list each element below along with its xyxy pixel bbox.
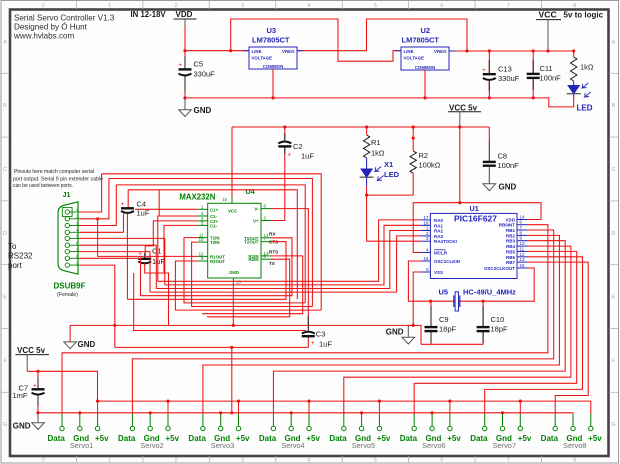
ground symbol under C5 <box>179 98 212 117</box>
svg-text:R2IN: R2IN <box>248 257 258 262</box>
wire loop L3 (DSUB p3 net) <box>116 185 305 303</box>
wire nest line 4 (p7 to RA3) <box>150 236 420 292</box>
svg-text:C13: C13 <box>498 65 512 74</box>
wire VDD input drop <box>184 26 186 51</box>
wire VCC to VDD pin <box>460 203 541 220</box>
wire VCC to U4 supply pin <box>231 127 233 197</box>
svg-text:RA0: RA0 <box>434 218 443 223</box>
svg-text:VOLTAGE: VOLTAGE <box>404 55 425 60</box>
svg-text:VCC: VCC <box>539 10 557 20</box>
note text: pinouts description <box>13 169 103 189</box>
svg-text:0: 0 <box>42 458 45 464</box>
svg-text:A: A <box>612 39 616 45</box>
resistor R2 100k <box>410 151 441 173</box>
svg-text:1uF: 1uF <box>152 257 165 266</box>
wire nest line 11 (R2IN) <box>207 259 290 317</box>
U1 right pins <box>517 220 527 269</box>
svg-text:T2OUT: T2OUT <box>244 240 259 245</box>
wire C1 bottom jog <box>145 264 169 326</box>
wire DSUB p5 into nest <box>80 238 165 285</box>
svg-text:U2: U2 <box>421 26 431 35</box>
capacitor C9 18pF <box>425 306 457 343</box>
svg-text:J1: J1 <box>63 190 71 199</box>
svg-text:IN 12-18V: IN 12-18V <box>131 10 167 19</box>
svg-text:C: C <box>3 167 7 173</box>
junction <box>183 49 186 52</box>
svg-text:+: + <box>33 383 37 390</box>
wire VCC feed line <box>27 371 97 401</box>
servo connector Servo5 <box>329 400 391 450</box>
svg-text:Servo7: Servo7 <box>493 441 516 450</box>
svg-text:A: A <box>3 39 7 45</box>
junction <box>412 137 415 140</box>
svg-text:1uF: 1uF <box>137 208 150 217</box>
svg-text:C2: C2 <box>293 142 303 151</box>
servo connector Servo4 <box>259 400 321 450</box>
wire C9 bottom lead <box>430 331 432 344</box>
net labels RX CTS RTS TX <box>269 231 278 265</box>
servo connector Servo3 <box>188 400 250 450</box>
wire +5v rail <box>98 401 591 414</box>
svg-text:0: 0 <box>42 3 45 9</box>
svg-text:7: 7 <box>507 458 510 464</box>
voltage regulator U3 LM7805CT <box>243 26 303 74</box>
wire L4 drop to C1- row <box>158 190 160 216</box>
wire C4 top riser <box>127 190 129 208</box>
wire loop L2 (DSUB p2 net) <box>109 179 313 307</box>
svg-text:+: + <box>178 62 182 69</box>
svg-text:VSS: VSS <box>434 270 443 275</box>
svg-text:T2IN: T2IN <box>210 240 220 245</box>
svg-text:B: B <box>612 103 616 109</box>
svg-text:10: 10 <box>199 237 204 242</box>
capacitor C8 100nF <box>483 140 519 184</box>
junction <box>412 324 415 327</box>
junction <box>113 324 116 327</box>
svg-text:D: D <box>612 231 616 237</box>
wire VSS to ground <box>413 272 420 325</box>
svg-text:13: 13 <box>520 257 526 262</box>
svg-text:OSC1CLKIN: OSC1CLKIN <box>434 259 460 264</box>
capacitor C1 1uF <box>138 247 165 266</box>
junction <box>532 49 535 52</box>
svg-text:OSC2CLKOUT: OSC2CLKOUT <box>484 266 515 271</box>
junction <box>458 201 461 204</box>
svg-text:D: D <box>3 231 7 237</box>
capacitor C10 18pF <box>477 306 508 343</box>
svg-text:Data: Data <box>48 434 66 443</box>
svg-text:4: 4 <box>307 458 310 464</box>
svg-text:GND: GND <box>229 270 239 275</box>
wire C2 top lead <box>284 127 286 140</box>
wire R1 to LED X1 <box>366 158 368 169</box>
svg-text:C10: C10 <box>491 315 505 324</box>
svg-text:E: E <box>612 295 616 301</box>
svg-text:7: 7 <box>76 248 78 252</box>
wire VCC drop to U1 <box>459 127 461 203</box>
wire C11 top lead <box>532 51 534 74</box>
svg-text:C11: C11 <box>540 64 553 73</box>
U4 right pins <box>261 209 271 260</box>
svg-text:16: 16 <box>222 197 227 202</box>
wire loop L1 (DSUB p1 net) <box>102 174 322 310</box>
wire C7 bottom lead <box>37 395 39 413</box>
wire DSUB p7 into nest <box>80 252 150 293</box>
svg-text:12: 12 <box>520 252 526 257</box>
svg-text:C1+: C1+ <box>210 207 219 212</box>
wire ground bus <box>70 325 421 344</box>
capacitor C13 330uF <box>482 60 520 91</box>
wire nest line 3 (p6 to RA2) <box>156 231 420 289</box>
svg-text:10: 10 <box>520 241 526 246</box>
wire DSUB p6 into nest <box>80 245 156 288</box>
wire nest line 12 (aux ground) <box>134 273 306 331</box>
svg-text:15: 15 <box>236 280 241 285</box>
svg-text:Data: Data <box>188 434 206 443</box>
svg-text:PIC16F627: PIC16F627 <box>454 214 497 224</box>
junction <box>465 49 468 52</box>
junction <box>230 346 233 349</box>
svg-text:+5v: +5v <box>377 434 391 443</box>
svg-text:RA4TOCKI: RA4TOCKI <box>434 239 457 244</box>
wire C10 top lead <box>482 301 484 326</box>
wire U2 output rail <box>449 50 574 52</box>
svg-text:100kΩ: 100kΩ <box>419 161 441 170</box>
junction <box>429 300 432 303</box>
servo connector Servo7 <box>470 400 532 450</box>
svg-text:1kΩ: 1kΩ <box>580 63 594 72</box>
svg-text:3: 3 <box>241 3 244 9</box>
svg-text:2: 2 <box>175 458 178 464</box>
wire C8 drop <box>488 127 490 140</box>
svg-text:R2: R2 <box>419 151 429 160</box>
svg-text:RA3: RA3 <box>434 234 443 239</box>
wire DSUB p8 into nest <box>80 258 141 295</box>
svg-text:Servo1: Servo1 <box>70 441 93 450</box>
svg-text:11: 11 <box>520 246 525 251</box>
wire U2 common to ground rail <box>424 70 426 98</box>
svg-text:+: + <box>287 152 291 159</box>
svg-text:LED: LED <box>577 104 593 113</box>
wire crystal ground rail <box>421 343 483 345</box>
svg-text:C8: C8 <box>498 152 508 161</box>
svg-text:18pF: 18pF <box>439 325 457 334</box>
svg-text:COMMON: COMMON <box>263 64 284 69</box>
net label VCC 5v (middle) <box>448 103 481 127</box>
svg-text:VOLTAGE: VOLTAGE <box>252 55 273 60</box>
wire C4 top to C1+ pin <box>135 208 198 210</box>
wire RB4 to Servo5 data <box>344 246 571 414</box>
wire U3 common to ground rail <box>272 69 274 98</box>
servo connector Servo2 <box>118 400 180 450</box>
wire X1 to node <box>366 186 368 195</box>
ground symbol under U1 VSS <box>386 325 415 344</box>
label To RS232 port <box>8 242 33 270</box>
svg-text:330uF: 330uF <box>194 69 216 78</box>
svg-text:4: 4 <box>307 3 310 9</box>
svg-text:V-: V- <box>254 207 259 212</box>
svg-text:Data: Data <box>541 434 559 443</box>
net label VDD with IN 12-18V <box>131 10 197 26</box>
svg-text:VREG: VREG <box>434 49 447 54</box>
wire RB0 to Servo1 data <box>62 225 548 414</box>
capacitor C4 1uF <box>121 200 150 218</box>
U4 left pins <box>198 209 208 261</box>
svg-text:5v to logic: 5v to logic <box>564 11 604 20</box>
svg-text:RS232: RS232 <box>8 252 33 261</box>
svg-text:+5v: +5v <box>588 434 602 443</box>
svg-text:+5v: +5v <box>95 434 109 443</box>
junction <box>482 300 485 303</box>
svg-text:5: 5 <box>374 3 377 9</box>
U4 power pins and internal labels <box>222 197 241 286</box>
wire OSC1 to crystal <box>408 261 430 301</box>
svg-text:To: To <box>8 242 17 251</box>
svg-text:RB0INT: RB0INT <box>499 223 516 228</box>
wire U3 output to U2 output <box>297 19 467 51</box>
svg-text:GND: GND <box>13 421 31 430</box>
svg-text:17: 17 <box>423 215 429 220</box>
svg-text:Servo4: Servo4 <box>281 441 304 450</box>
junction <box>572 49 575 52</box>
svg-text:DSUB9F: DSUB9F <box>54 282 86 291</box>
svg-text:+5v: +5v <box>518 434 532 443</box>
svg-text:G: G <box>3 422 7 428</box>
capacitor C7 1mF <box>13 377 45 406</box>
svg-text:+5v: +5v <box>447 434 461 443</box>
wire DSUB p3 riser <box>80 185 116 226</box>
junction <box>365 194 368 197</box>
svg-text:C3: C3 <box>316 330 326 339</box>
svg-text:C2-: C2- <box>210 223 218 228</box>
junction <box>96 217 99 220</box>
junction <box>412 125 415 128</box>
svg-text:GND: GND <box>386 327 404 336</box>
svg-text:16: 16 <box>423 256 429 261</box>
svg-text:E: E <box>3 295 7 301</box>
svg-text:RB7: RB7 <box>506 260 515 265</box>
svg-text:U3: U3 <box>267 26 277 35</box>
svg-text:Data: Data <box>400 434 418 443</box>
wire nest line 2 (p5 to RA1) <box>165 225 421 285</box>
svg-text:RX: RX <box>269 231 276 236</box>
svg-text:LINE: LINE <box>404 49 414 54</box>
wire nest line 6 (C4 to T2OUT) <box>127 242 286 300</box>
svg-text:RB1: RB1 <box>506 228 515 233</box>
junction <box>229 49 232 52</box>
servo connector Servo1 <box>48 400 110 450</box>
junction <box>488 49 491 52</box>
svg-text:Servo5: Servo5 <box>352 441 375 450</box>
wire DSUB p4 to C4 bottom <box>80 231 124 233</box>
wire C5 top lead <box>184 51 186 69</box>
svg-text:8: 8 <box>573 3 576 9</box>
svg-text:1uF: 1uF <box>301 151 314 160</box>
U1 MCLR overline <box>434 249 446 251</box>
wire C3 bottom lead <box>307 337 309 347</box>
svg-text:1kΩ: 1kΩ <box>371 149 385 158</box>
labels X1 LED <box>384 160 400 179</box>
svg-text:RA2: RA2 <box>434 229 443 234</box>
svg-text:COMMON: COMMON <box>415 65 436 70</box>
svg-text:Data: Data <box>329 434 347 443</box>
svg-text:GND: GND <box>194 106 212 115</box>
svg-text:V+: V+ <box>253 219 259 224</box>
svg-text:VCC 5v: VCC 5v <box>17 346 46 355</box>
capacitor C2 1uF <box>278 133 314 160</box>
svg-text:Servo8: Servo8 <box>563 441 586 450</box>
junction <box>458 125 461 128</box>
svg-text:3: 3 <box>241 458 244 464</box>
svg-text:Serial Servo Controller V1.3: Serial Servo Controller V1.3 <box>14 14 115 23</box>
svg-text:RB2: RB2 <box>506 233 515 238</box>
svg-text:RB5: RB5 <box>506 249 515 254</box>
capacitor C3 1uF <box>302 316 333 348</box>
wire DSUB p2 riser <box>80 179 109 219</box>
net label VCC 5v to logic <box>536 10 604 52</box>
junction <box>183 96 186 99</box>
wire nest line 5 (p8 to T1OUT) <box>141 238 293 296</box>
wire ground drop to Gnd rail <box>231 347 233 412</box>
junction <box>283 125 286 128</box>
svg-text:9: 9 <box>76 261 78 265</box>
LED power indicator <box>567 83 591 97</box>
LED X1 status LED <box>360 167 384 181</box>
wire C9 top lead <box>430 301 432 326</box>
wire X1 node to RA4 <box>367 195 421 241</box>
svg-text:18pF: 18pF <box>491 325 509 334</box>
wire C11 bottom lead <box>532 78 534 98</box>
svg-text:6: 6 <box>76 241 78 245</box>
IC U1 PIC16F627 <box>430 204 517 279</box>
svg-text:RB4: RB4 <box>506 244 515 249</box>
svg-text:can be used between ports.: can be used between ports. <box>13 183 73 189</box>
svg-text:C9: C9 <box>439 315 449 324</box>
resistor R1 1k <box>363 135 385 158</box>
svg-text:+: + <box>121 201 125 208</box>
wire RB7 to Servo8 data <box>527 262 588 414</box>
svg-text:3: 3 <box>76 222 78 226</box>
capacitor C11 100nF <box>527 60 561 90</box>
svg-text:+: + <box>311 340 315 347</box>
svg-text:1: 1 <box>76 208 78 212</box>
svg-text:+5v: +5v <box>236 434 250 443</box>
junction <box>271 96 274 99</box>
svg-text:G: G <box>611 422 615 428</box>
wire C13 top lead <box>488 51 490 74</box>
J1 pin circles and stubs <box>65 210 80 267</box>
svg-text:RTS: RTS <box>269 250 278 255</box>
wire resistor top lead <box>573 51 575 57</box>
svg-text:2: 2 <box>175 3 178 9</box>
wire C1- staircase <box>158 216 198 281</box>
svg-text:GND: GND <box>78 340 96 349</box>
junction <box>532 96 535 99</box>
wire VCC 5v rail <box>232 126 489 128</box>
wire ground bus stem <box>69 325 71 341</box>
wire LED to ground rail <box>573 98 575 107</box>
wire DSUB p9 ground drop <box>80 265 115 347</box>
svg-text:6: 6 <box>440 3 443 9</box>
svg-text:2: 2 <box>76 215 78 219</box>
svg-text:8: 8 <box>573 458 576 464</box>
svg-text:GND: GND <box>499 183 517 192</box>
svg-text:U4: U4 <box>246 187 255 196</box>
junction <box>546 49 549 52</box>
wire DSUB p2 branch to R1OUT <box>98 219 198 257</box>
svg-text:Pinouts here match computer se: Pinouts here match computer serial <box>14 169 94 175</box>
crystal U5 HC-49/U_4MHz <box>439 288 517 312</box>
svg-text:RB6: RB6 <box>506 255 515 260</box>
wire R2 bottom lead <box>412 173 414 195</box>
svg-text:+5v: +5v <box>165 434 179 443</box>
wire VDD to U3 input <box>185 50 249 52</box>
junction <box>232 324 235 327</box>
svg-text:100nF: 100nF <box>540 74 562 83</box>
capacitor C5 330uF <box>178 56 215 91</box>
wire nest line 10 (R1IN) <box>202 256 303 314</box>
svg-text:7: 7 <box>507 3 510 9</box>
wire RB2 to Servo3 data <box>203 235 560 414</box>
junction <box>230 411 233 414</box>
junction <box>36 411 39 414</box>
label DSUB9F (Female) <box>54 282 86 299</box>
wire nest line 9 (R2OUT to L1) <box>175 261 321 310</box>
wire C4 bottom to DSUB p4 <box>123 213 125 232</box>
svg-text:Data: Data <box>259 434 277 443</box>
svg-text:Data: Data <box>470 434 488 443</box>
svg-text:C4: C4 <box>137 200 147 209</box>
svg-text:1uF: 1uF <box>319 339 332 348</box>
svg-text:+: + <box>482 67 486 74</box>
svg-text:C: C <box>612 167 616 173</box>
wire nest line 8 (T2IN to L2) <box>192 242 313 306</box>
svg-text:6: 6 <box>440 458 443 464</box>
svg-text:HC-49/U_4MHz: HC-49/U_4MHz <box>463 288 516 297</box>
wire R1 top lead <box>366 127 368 135</box>
svg-text:Servo2: Servo2 <box>140 441 163 450</box>
svg-text:1: 1 <box>108 3 111 9</box>
wire ground line to C3 <box>115 346 308 348</box>
ground symbol servo area left <box>64 340 96 349</box>
connector J1 DSUB9F <box>58 190 78 274</box>
wire OSC2 to crystal <box>483 268 534 301</box>
svg-text:Servo6: Servo6 <box>422 441 445 450</box>
svg-text:100nF: 100nF <box>498 161 520 170</box>
svg-text:Designed by Ó Hunt: Designed by Ó Hunt <box>14 23 88 32</box>
wire R2 top lead <box>412 127 414 151</box>
svg-text:1: 1 <box>108 458 111 464</box>
servo connector Servo6 <box>400 400 462 450</box>
svg-text:MAX232N: MAX232N <box>179 193 215 202</box>
junction <box>36 370 39 373</box>
wire VDD feed to U2 input <box>231 19 401 61</box>
svg-text:5: 5 <box>76 235 78 239</box>
resistor 1k pullup for power LED <box>571 57 594 81</box>
wire RB3 to Servo4 data <box>273 241 565 414</box>
wire RB6 to Servo7 data <box>485 257 583 414</box>
ground symbol under C7 <box>13 413 45 431</box>
wire C2+ to C1 top <box>145 221 198 258</box>
svg-text:+5v: +5v <box>306 434 320 443</box>
voltage regulator U2 LM7805CT <box>395 26 455 75</box>
svg-text:R1: R1 <box>371 138 381 147</box>
wire C13 bottom lead <box>488 79 490 98</box>
svg-text:330uF: 330uF <box>498 74 520 83</box>
wire X1 cathode <box>366 178 368 187</box>
svg-text:www.hvlabs.com: www.hvlabs.com <box>13 32 75 41</box>
wire VCC to MCLR <box>413 203 460 253</box>
